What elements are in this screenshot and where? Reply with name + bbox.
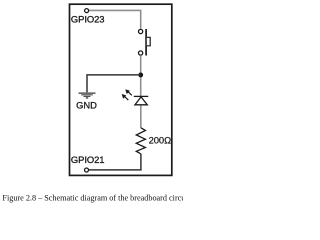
svg-text:GND: GND	[76, 99, 97, 110]
svg-text:Figure 2.8 – Schematic diagram: Figure 2.8 – Schematic diagram of the br…	[2, 194, 183, 203]
svg-text:GPIO21: GPIO21	[71, 154, 105, 165]
svg-text:GPIO23: GPIO23	[71, 13, 105, 24]
svg-text:200Ω: 200Ω	[149, 134, 171, 145]
